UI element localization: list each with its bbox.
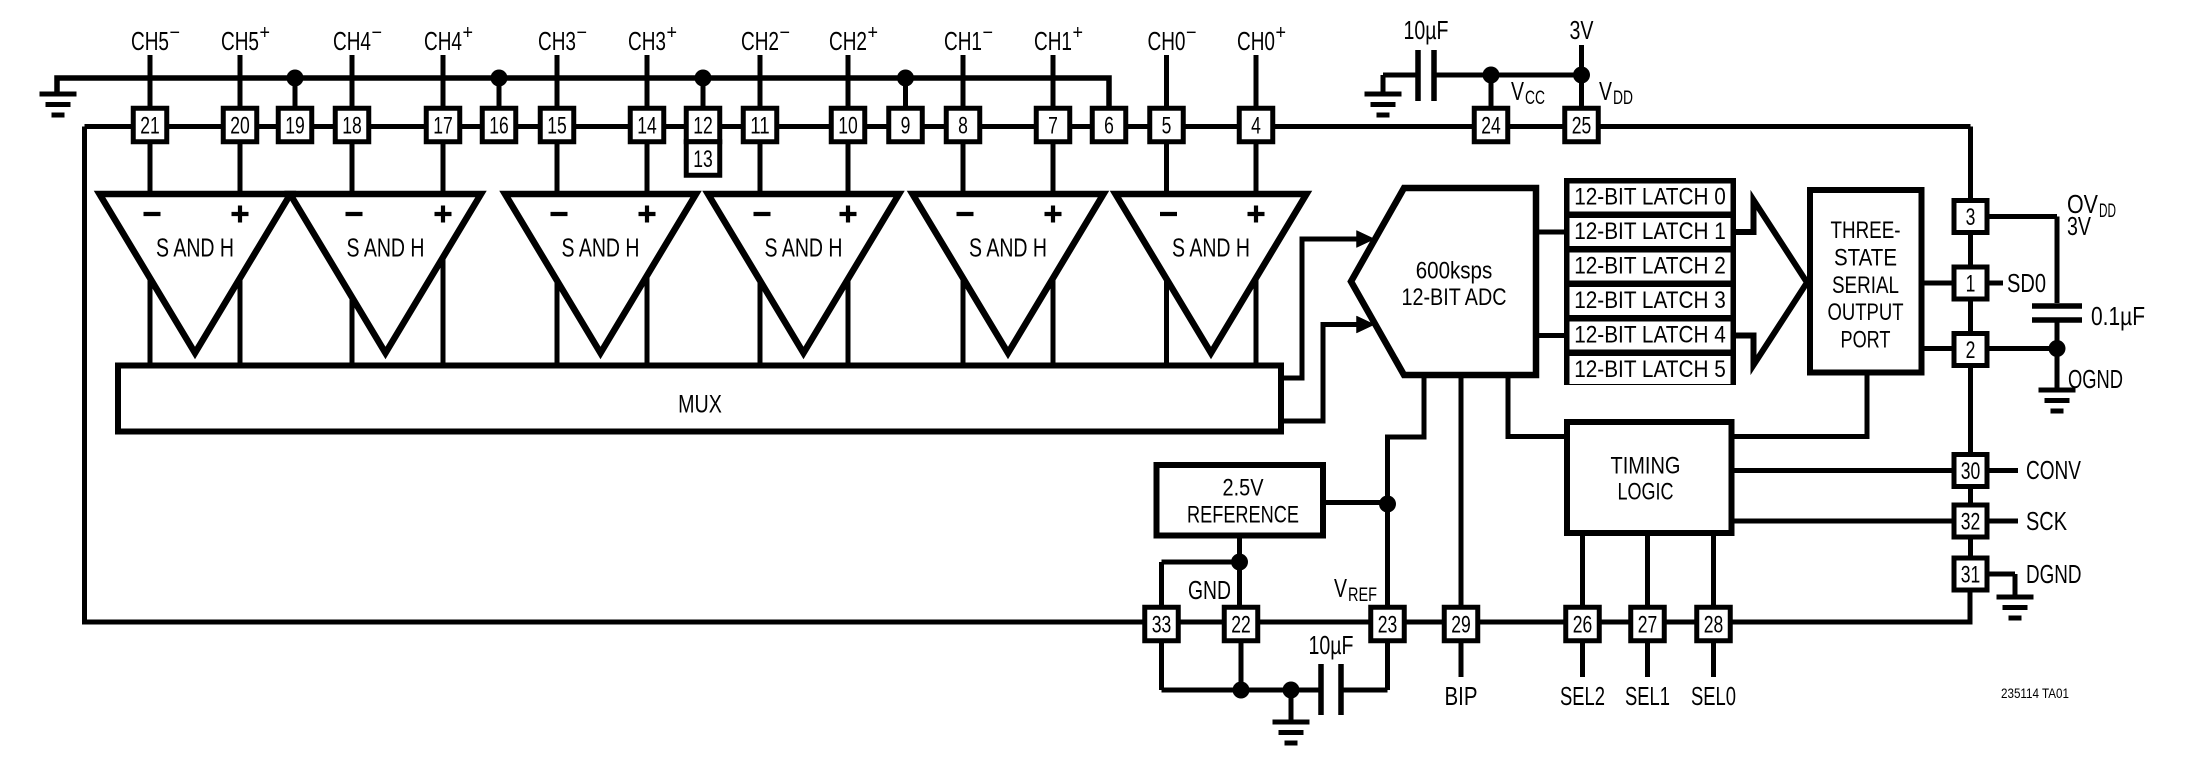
svg-text:26: 26 xyxy=(1573,611,1593,638)
ground bottom 10uF xyxy=(1273,722,1310,743)
wire pin 2 to OGND with junction dot xyxy=(1989,340,2066,390)
wire S AND H 4 outputs to MUX xyxy=(760,277,848,366)
pin 12 xyxy=(686,108,720,142)
wire ground stub bottom cap xyxy=(1289,690,1294,722)
svg-text:11: 11 xyxy=(750,112,770,139)
wire pin 8 to S AND H input xyxy=(961,141,966,197)
svg-text:15: 15 xyxy=(547,112,567,139)
svg-text:+: + xyxy=(1073,22,1084,44)
ground OGND xyxy=(2039,390,2076,411)
pin 19 xyxy=(278,108,312,142)
input label CH3+ and wire to pin xyxy=(628,22,677,109)
pin 21 xyxy=(133,108,167,142)
svg-text:CC: CC xyxy=(1525,88,1545,109)
svg-text:SERIAL: SERIAL xyxy=(1832,272,1899,299)
svg-text:S AND H: S AND H xyxy=(765,233,843,263)
wire MUX to ADC input 2 with arrowhead xyxy=(1284,316,1375,421)
input label CH0- and wire to pin xyxy=(1148,22,1197,109)
MUX block xyxy=(118,366,1281,432)
svg-text:20: 20 xyxy=(230,112,250,139)
label SCK with stub xyxy=(1990,506,2068,536)
svg-text:S AND H: S AND H xyxy=(347,233,425,263)
svg-text:V: V xyxy=(1334,573,1347,603)
label SD0 with stub xyxy=(1989,268,2046,298)
wire pin 21 to S AND H input xyxy=(148,141,153,197)
svg-text:600ksps: 600ksps xyxy=(1416,258,1493,285)
svg-text:CH1: CH1 xyxy=(1034,26,1072,56)
svg-text:OUTPUT: OUTPUT xyxy=(1828,299,1904,326)
label VCC xyxy=(1511,76,1545,109)
svg-text:12-BIT LATCH 3: 12-BIT LATCH 3 xyxy=(1574,287,1726,314)
wire output port to pin 1 xyxy=(1925,281,1953,286)
svg-text:CH4: CH4 xyxy=(424,26,462,56)
label GND xyxy=(1188,575,1231,605)
wire stub bus to pin 9 with junction dot xyxy=(897,70,914,109)
input label CH1+ and wire to pin xyxy=(1034,22,1083,109)
wire S AND H 1 outputs to MUX xyxy=(150,276,240,365)
svg-text:S AND H: S AND H xyxy=(156,233,234,263)
pin 2 xyxy=(1954,334,1987,366)
wire pin 18 to S AND H input xyxy=(350,141,355,197)
svg-text:REF: REF xyxy=(1348,585,1377,606)
wire pin 14 to S AND H input xyxy=(645,141,650,197)
svg-text:CH4: CH4 xyxy=(333,26,371,56)
label OGND xyxy=(2068,364,2123,394)
2.5V REFERENCE block xyxy=(1157,465,1324,536)
pin 13 xyxy=(686,142,720,176)
12-BIT LATCH 5 xyxy=(1570,356,1731,384)
svg-text:3: 3 xyxy=(1966,204,1976,231)
pin 4 xyxy=(1239,108,1273,142)
label SEL2 with stub xyxy=(1560,640,1605,711)
wire timing logic to pin 32 SCK xyxy=(1735,519,1953,524)
pin 29 xyxy=(1444,607,1478,641)
svg-text:30: 30 xyxy=(1961,458,1981,485)
svg-text:−: − xyxy=(1186,22,1197,44)
svg-text:+: + xyxy=(260,22,271,44)
op-amp S AND H 5 xyxy=(913,194,1104,353)
svg-text:GND: GND xyxy=(1188,575,1231,605)
svg-text:S AND H: S AND H xyxy=(562,233,640,263)
svg-text:12: 12 xyxy=(693,112,713,139)
pin 15 xyxy=(540,108,574,142)
12-BIT LATCH 0 xyxy=(1570,184,1731,212)
wire output port to timing logic xyxy=(1735,376,1868,437)
wire S AND H 2 outputs to MUX xyxy=(352,255,443,365)
svg-text:THREE-: THREE- xyxy=(1831,217,1901,244)
wire MUX to ADC input 1 with arrowhead xyxy=(1284,231,1375,379)
capacitor 0.1uF xyxy=(2032,301,2145,349)
svg-text:19: 19 xyxy=(285,112,305,139)
svg-text:SEL0: SEL0 xyxy=(1691,681,1736,711)
latch stack frame xyxy=(1564,178,1736,385)
svg-text:S AND H: S AND H xyxy=(1172,233,1250,263)
ADC 600ksps 12-BIT block xyxy=(1351,188,1536,375)
svg-text:CH3: CH3 xyxy=(538,26,576,56)
svg-text:SCK: SCK xyxy=(2026,506,2067,536)
svg-text:12-BIT ADC: 12-BIT ADC xyxy=(1402,284,1507,311)
pin 16 xyxy=(482,108,516,142)
svg-text:SEL1: SEL1 xyxy=(1625,681,1670,711)
label VDD xyxy=(1599,76,1633,109)
svg-text:25: 25 xyxy=(1572,112,1592,139)
svg-text:TIMING: TIMING xyxy=(1611,453,1681,480)
pin 10 xyxy=(831,108,865,142)
pin 22 xyxy=(1224,607,1258,641)
wire output port to pin 2 xyxy=(1925,346,1953,351)
svg-text:22: 22 xyxy=(1231,611,1251,638)
pin 6 xyxy=(1092,108,1126,142)
svg-text:17: 17 xyxy=(433,112,453,139)
svg-text:V: V xyxy=(1599,76,1612,106)
op-amp S AND H 3 xyxy=(505,194,696,353)
wire pin 11 to S AND H input xyxy=(758,141,763,197)
svg-text:CH0: CH0 xyxy=(1148,26,1186,56)
svg-text:PORT: PORT xyxy=(1841,327,1891,354)
pin 17 xyxy=(426,108,460,142)
pin 33 xyxy=(1145,607,1179,641)
svg-text:9: 9 xyxy=(901,112,911,139)
svg-text:10µF: 10µF xyxy=(1309,630,1354,660)
pin 3 xyxy=(1954,201,1987,233)
label VREF xyxy=(1334,573,1377,606)
pin 24 xyxy=(1474,108,1508,142)
svg-text:28: 28 xyxy=(1704,611,1724,638)
pin 27 xyxy=(1631,607,1665,641)
op-amp S AND H 1 xyxy=(100,194,291,353)
op-amp S AND H 6 xyxy=(1116,194,1307,353)
label SEL1 with stub xyxy=(1625,640,1670,711)
svg-text:32: 32 xyxy=(1961,508,1981,535)
wire top COM bus from ground to pin 6 xyxy=(57,78,1109,109)
TIMING LOGIC block xyxy=(1567,422,1732,533)
capacitor 10uF top xyxy=(1383,15,1491,101)
svg-text:12-BIT LATCH 1: 12-BIT LATCH 1 xyxy=(1574,218,1726,245)
wire pin 5 to S AND H input xyxy=(1164,141,1169,197)
wire pin 17 to S AND H input xyxy=(441,141,446,197)
svg-text:CH5: CH5 xyxy=(131,26,169,56)
wire pin 20 to S AND H input xyxy=(238,141,243,197)
wire S AND H 6 outputs to MUX xyxy=(1167,276,1257,365)
wire S AND H 5 outputs to MUX xyxy=(963,276,1053,365)
pin 1 xyxy=(1954,267,1987,299)
input label CH5- and wire to pin xyxy=(131,22,180,109)
svg-text:16: 16 xyxy=(489,112,509,139)
svg-text:+: + xyxy=(463,22,474,44)
svg-text:REFERENCE: REFERENCE xyxy=(1187,502,1299,529)
pin 26 xyxy=(1566,607,1600,641)
pin 23 xyxy=(1371,607,1405,641)
svg-text:CH5: CH5 xyxy=(221,26,259,56)
label BIP with stub xyxy=(1445,640,1478,711)
svg-text:235114 TA01: 235114 TA01 xyxy=(2001,686,2069,701)
op-amp S AND H 2 xyxy=(290,194,481,353)
wire ADC to BIP pin 29 xyxy=(1459,375,1464,608)
svg-text:S AND H: S AND H xyxy=(969,233,1047,263)
svg-text:+: + xyxy=(667,22,678,44)
label DGND with ground xyxy=(1989,559,2082,597)
svg-text:−: − xyxy=(372,22,383,44)
pin 7 xyxy=(1036,108,1070,142)
wire pin row to pin 3 xyxy=(1968,127,1973,217)
wire S AND H 3 outputs to MUX xyxy=(557,274,647,366)
svg-text:DD: DD xyxy=(1613,88,1633,109)
wire pin 7 to S AND H input xyxy=(1051,141,1056,197)
svg-text:MUX: MUX xyxy=(678,391,722,419)
svg-text:2: 2 xyxy=(1966,337,1976,364)
pin 8 xyxy=(946,108,980,142)
input label CH2- and wire to pin xyxy=(741,22,790,109)
svg-text:29: 29 xyxy=(1451,611,1471,638)
pin 28 xyxy=(1697,607,1731,641)
label SEL0 with stub xyxy=(1691,640,1736,711)
svg-text:31: 31 xyxy=(1961,561,1981,588)
svg-text:14: 14 xyxy=(637,112,657,139)
input label CH2+ and wire to pin xyxy=(829,22,878,109)
wire pin 3 to OVDD and 0.1uF cap xyxy=(1989,217,2057,304)
capacitor 10uF bottom xyxy=(1162,630,1388,715)
wire reference to GND pins 33 and 22 xyxy=(1162,537,1249,608)
svg-text:2.5V: 2.5V xyxy=(1223,475,1265,502)
wire stub bus to pin 16 with junction dot xyxy=(491,70,508,109)
wire stub bus to pin 19 with junction dot xyxy=(287,70,304,109)
svg-text:+: + xyxy=(868,22,879,44)
svg-text:LOGIC: LOGIC xyxy=(1618,479,1674,506)
svg-text:CONV: CONV xyxy=(2026,455,2081,485)
wire stub bus to pin 12 with junction dot xyxy=(695,70,712,109)
svg-text:27: 27 xyxy=(1638,611,1658,638)
pin 11 xyxy=(743,108,777,142)
wire reference to VREF node xyxy=(1325,500,1388,505)
ground top 10uF xyxy=(1365,94,1402,115)
svg-text:BIP: BIP xyxy=(1445,681,1478,711)
12-BIT LATCH 2 xyxy=(1570,253,1731,281)
svg-text:6: 6 xyxy=(1104,112,1114,139)
svg-text:+: + xyxy=(1276,22,1287,44)
svg-text:DGND: DGND xyxy=(2026,559,2082,589)
input label CH4+ and wire to pin xyxy=(424,22,473,109)
svg-text:24: 24 xyxy=(1481,112,1501,139)
wire ADC to latch 1 xyxy=(1536,230,1564,235)
svg-text:DD: DD xyxy=(2099,201,2116,222)
svg-text:18: 18 xyxy=(342,112,362,139)
THREE-STATE SERIAL OUTPUT PORT block xyxy=(1810,190,1922,373)
wire right pin column connections xyxy=(1968,235,1973,557)
svg-text:12-BIT LATCH 5: 12-BIT LATCH 5 xyxy=(1574,356,1726,383)
svg-text:4: 4 xyxy=(1251,112,1261,139)
wire pin 4 to S AND H input xyxy=(1254,141,1259,197)
svg-text:1: 1 xyxy=(1966,270,1976,297)
svg-text:OGND: OGND xyxy=(2068,364,2123,394)
wire left rail and bottom bus to pin 31 xyxy=(85,127,1971,623)
svg-text:8: 8 xyxy=(958,112,968,139)
ground top-left xyxy=(40,94,77,115)
svg-text:STATE: STATE xyxy=(1834,245,1897,272)
svg-text:CH2: CH2 xyxy=(741,26,779,56)
svg-text:3V: 3V xyxy=(1570,15,1594,45)
pin 20 xyxy=(223,108,257,142)
svg-text:CH2: CH2 xyxy=(829,26,867,56)
svg-text:13: 13 xyxy=(693,146,713,173)
input label CH1- and wire to pin xyxy=(944,22,993,109)
arrow latches to serial output port xyxy=(1736,200,1807,365)
12-BIT LATCH 1 xyxy=(1570,218,1731,246)
wire pin 10 to S AND H input xyxy=(846,141,851,197)
svg-text:SEL2: SEL2 xyxy=(1560,681,1605,711)
12-BIT LATCH 4 xyxy=(1570,322,1731,350)
input label CH0+ and wire to pin xyxy=(1237,22,1286,109)
pin 30 xyxy=(1954,455,1987,487)
svg-text:CH1: CH1 xyxy=(944,26,982,56)
svg-text:7: 7 xyxy=(1048,112,1058,139)
pin 14 xyxy=(630,108,664,142)
label CONV with stub xyxy=(1990,455,2082,485)
op-amp S AND H 4 xyxy=(708,194,899,353)
input label CH5+ and wire to pin xyxy=(221,22,270,109)
pin 25 xyxy=(1565,108,1599,142)
svg-text:SD0: SD0 xyxy=(2007,268,2046,298)
svg-text:CH3: CH3 xyxy=(628,26,666,56)
wire VCC VDD supply with junction dots xyxy=(1483,45,1591,109)
svg-text:12-BIT LATCH 0: 12-BIT LATCH 0 xyxy=(1574,184,1726,211)
svg-text:12-BIT LATCH 4: 12-BIT LATCH 4 xyxy=(1574,322,1726,349)
svg-text:−: − xyxy=(780,22,791,44)
svg-text:23: 23 xyxy=(1378,611,1398,638)
label OVDD 3V xyxy=(2067,189,2116,241)
ground DGND xyxy=(1997,597,2034,618)
label 3V supply xyxy=(1570,15,1594,45)
pin 32 xyxy=(1954,505,1987,537)
svg-text:3V: 3V xyxy=(2067,211,2091,241)
wire pin 15 to S AND H input xyxy=(555,141,560,197)
svg-text:−: − xyxy=(983,22,994,44)
pin 9 xyxy=(889,108,923,142)
svg-text:12-BIT LATCH 2: 12-BIT LATCH 2 xyxy=(1574,253,1726,280)
wire ground stub for 10uF cap xyxy=(1381,75,1386,94)
pin 31 xyxy=(1954,558,1987,590)
figure id 235114 TA01 xyxy=(2001,686,2069,701)
input label CH4- and wire to pin xyxy=(333,22,382,109)
wire ADC to VREF pin 23 with junction dot xyxy=(1379,375,1424,608)
svg-text:−: − xyxy=(577,22,588,44)
pin 18 xyxy=(335,108,369,142)
wire timing logic to SEL pins xyxy=(1583,536,1714,608)
12-BIT LATCH 3 xyxy=(1570,287,1731,315)
pin 5 xyxy=(1150,108,1184,142)
svg-text:V: V xyxy=(1511,76,1524,106)
wire timing logic to pin 30 CONV xyxy=(1735,468,1953,473)
input label CH3- and wire to pin xyxy=(538,22,587,109)
svg-text:10µF: 10µF xyxy=(1404,15,1449,45)
svg-text:10: 10 xyxy=(838,112,858,139)
wire pin row bus xyxy=(85,124,1971,129)
svg-text:33: 33 xyxy=(1152,611,1172,638)
svg-text:−: − xyxy=(170,22,181,44)
wire ADC to latch 4 xyxy=(1536,333,1564,338)
svg-text:0.1µF: 0.1µF xyxy=(2091,301,2145,331)
svg-text:21: 21 xyxy=(140,112,160,139)
svg-text:5: 5 xyxy=(1162,112,1172,139)
wire ADC to timing logic xyxy=(1508,375,1564,437)
svg-text:CH0: CH0 xyxy=(1237,26,1275,56)
